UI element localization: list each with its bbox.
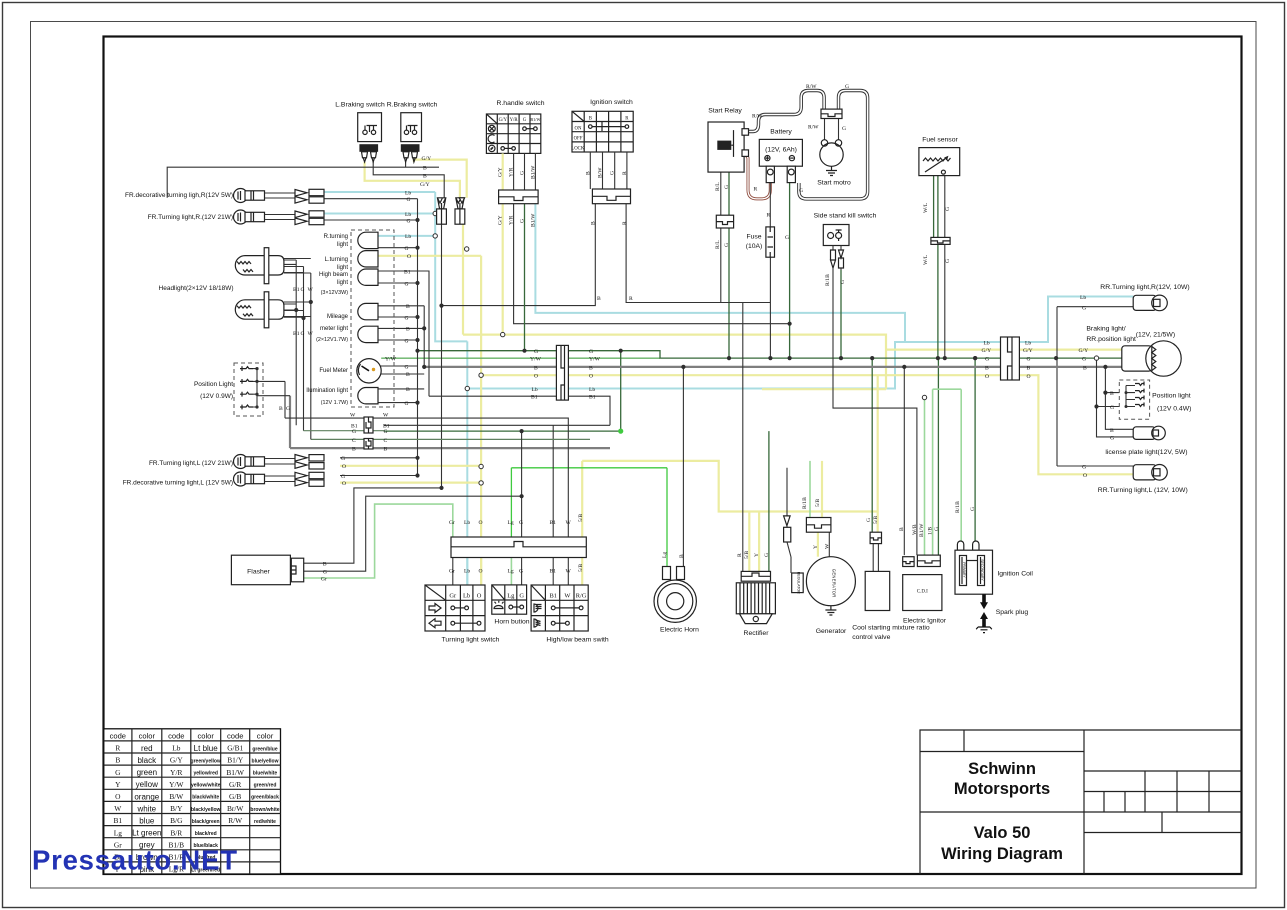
svg-text:Lb: Lb <box>464 520 470 526</box>
svg-text:G/B: G/B <box>229 792 241 801</box>
wire W/L fuel sensor green <box>933 176 935 238</box>
svg-text:R/L: R/L <box>715 240 721 249</box>
svg-text:B1/W: B1/W <box>919 523 925 537</box>
svg-text:G: G <box>724 243 730 247</box>
svg-text:Lg: Lg <box>508 569 514 575</box>
wire B position light rear riser <box>1105 367 1133 429</box>
wire G long horizontal lower <box>384 430 621 432</box>
svg-text:Gr: Gr <box>449 593 457 600</box>
lamp braking light / RR.position light <box>1122 341 1181 376</box>
svg-text:R: R <box>754 187 758 193</box>
svg-text:Fuel Meter: Fuel Meter <box>319 368 348 374</box>
wire G control valve riser <box>871 358 873 532</box>
flasher relay <box>231 555 303 585</box>
svg-text:5/B: 5/B <box>744 551 750 559</box>
wire G side stand <box>840 270 842 358</box>
svg-text:REGULATOR: REGULATOR <box>797 572 801 594</box>
svg-text:W: W <box>383 413 389 419</box>
svg-text:W: W <box>566 569 572 575</box>
svg-text:black/red: black/red <box>195 831 217 837</box>
svg-text:Gr: Gr <box>321 577 327 583</box>
wire Lb FR.turning light R <box>324 213 435 215</box>
svg-text:B/G: B/G <box>170 816 183 825</box>
svg-text:Lb: Lb <box>1080 295 1086 301</box>
svg-text:L.Braking switch: L.Braking switch <box>335 102 385 109</box>
svg-text:L.turning: L.turning <box>325 257 348 263</box>
wire G/Y riser below plug <box>462 224 464 334</box>
connector plug pair below braking switches <box>437 198 465 224</box>
svg-text:Y/W: Y/W <box>530 357 542 363</box>
rear connector J2 <box>1001 337 1020 380</box>
cool starting mixture ratio control valve <box>865 532 890 610</box>
svg-text:G: G <box>405 281 409 287</box>
svg-text:G: G <box>286 406 290 412</box>
svg-text:O: O <box>1083 473 1087 479</box>
svg-text:Y: Y <box>115 780 121 789</box>
wire R fuse lower <box>769 257 771 358</box>
svg-text:FR.Turning light,L (12V 21W): FR.Turning light,L (12V 21W) <box>149 460 233 467</box>
R.handle connector <box>499 190 538 204</box>
svg-text:green/yellow: green/yellow <box>191 758 221 764</box>
svg-text:B: B <box>384 447 388 453</box>
svg-text:B1/W: B1/W <box>531 165 537 179</box>
cluster mileage bulb 2 <box>358 326 378 342</box>
svg-text:B1/W: B1/W <box>226 768 244 777</box>
svg-text:B/W: B/W <box>169 792 183 801</box>
wire R rectifier <box>742 303 744 572</box>
svg-text:C: C <box>352 438 356 444</box>
labels instrument cluster <box>306 234 348 406</box>
electric horn H1 <box>654 567 696 623</box>
svg-text:Y/R: Y/R <box>170 768 182 777</box>
svg-text:B: B <box>1027 365 1031 371</box>
svg-text:Y/R: Y/R <box>509 167 515 177</box>
svg-text:O: O <box>1027 374 1031 380</box>
wire A/1 start relay pin <box>720 172 722 303</box>
wire Lg below bar <box>510 558 512 586</box>
svg-text:(10A): (10A) <box>746 243 763 250</box>
wire B1 bus right wrap <box>384 396 610 425</box>
svg-text:High beam: High beam <box>319 272 348 278</box>
wire B cluster riser <box>423 306 425 367</box>
svg-text:Lb: Lb <box>172 744 181 753</box>
svg-text:G: G <box>1110 405 1114 411</box>
svg-text:G/Y: G/Y <box>1023 348 1033 354</box>
svg-text:G: G <box>523 118 527 123</box>
ignition coil T1 <box>955 541 993 594</box>
svg-text:O: O <box>115 792 121 801</box>
svg-text:G: G <box>1082 357 1086 363</box>
svg-text:Y/W: Y/W <box>385 356 397 362</box>
svg-text:code: code <box>168 731 184 740</box>
svg-text:B1: B1 <box>293 331 300 337</box>
svg-text:Pressauto.NET: Pressauto.NET <box>32 845 237 876</box>
wire B ignition to left riser <box>442 204 596 306</box>
lamp FR.decorative turning light R <box>234 189 325 204</box>
wire B1/W from R.handle switch <box>535 204 905 342</box>
ignition connector <box>592 189 630 204</box>
wire B thick lower horizontal <box>290 447 610 449</box>
svg-text:High/low beam swith: High/low beam swith <box>546 637 609 644</box>
svg-text:FR.Turning light,R.(12V 21W): FR.Turning light,R.(12V 21W) <box>148 214 233 221</box>
wire R/1B generator riser <box>809 461 811 518</box>
svg-text:R: R <box>737 553 743 557</box>
svg-text:B1: B1 <box>113 816 122 825</box>
svg-text:Gr: Gr <box>449 569 455 575</box>
wire G branch to RR turning lights <box>1057 307 1133 466</box>
svg-text:G: G <box>840 280 846 284</box>
svg-text:Lb: Lb <box>405 212 411 218</box>
svg-text:(2×12V1.7W): (2×12V1.7W) <box>316 337 348 343</box>
svg-text:color: color <box>197 731 214 740</box>
wire G bus vertical collector <box>417 199 419 476</box>
svg-text:B: B <box>406 327 410 333</box>
svg-text:O: O <box>342 464 346 470</box>
wire B1 bus left of connector <box>429 395 556 397</box>
L.braking switch SW1 <box>358 113 382 162</box>
svg-text:B: B <box>423 166 427 172</box>
svg-text:B/R: B/R <box>170 828 182 837</box>
wire Lb FR.decorative turning light R <box>324 191 435 193</box>
svg-text:color: color <box>257 731 274 740</box>
svg-text:(12V, 21/5W): (12V, 21/5W) <box>1136 332 1175 339</box>
wire R/G below bar <box>581 558 583 586</box>
headlight bulb upper <box>235 248 310 284</box>
svg-text:orange: orange <box>134 792 159 801</box>
wire G/Y from L.braking switch <box>365 162 460 198</box>
svg-text:R/W: R/W <box>228 816 242 825</box>
svg-text:Lb: Lb <box>589 387 595 393</box>
svg-text:G: G <box>384 429 388 435</box>
svg-text:Ignition switch: Ignition switch <box>590 99 633 106</box>
svg-text:B: B <box>589 116 592 121</box>
svg-text:R: R <box>629 296 633 302</box>
svg-text:Electric Ignitor: Electric Ignitor <box>903 618 947 625</box>
svg-text:Braking light/: Braking light/ <box>1086 326 1125 333</box>
svg-text:yellow/red: yellow/red <box>193 771 217 777</box>
svg-text:Mileage: Mileage <box>327 314 349 320</box>
wire G drop to bar <box>521 431 523 537</box>
wire O FR.decorative turning light L <box>340 482 481 484</box>
svg-text:R/W: R/W <box>808 125 819 131</box>
side stand kill switch SW5 <box>823 225 849 271</box>
wire G/Y from R.braking switch <box>414 160 467 198</box>
svg-text:G: G <box>842 126 846 132</box>
wire G FR.decorative L <box>340 475 418 477</box>
svg-text:red: red <box>141 744 153 753</box>
svg-text:5/B: 5/B <box>578 564 584 572</box>
svg-text:G: G <box>520 219 526 223</box>
svg-text:Lb: Lb <box>532 387 538 393</box>
svg-text:G: G <box>405 364 409 370</box>
svg-text:GENERATOR: GENERATOR <box>832 569 837 598</box>
svg-text:G: G <box>405 315 409 321</box>
wire B riser below plug to flasher level <box>441 224 443 488</box>
wire B electric horn <box>682 367 684 567</box>
svg-text:W/L: W/L <box>923 254 929 265</box>
svg-text:B1/W: B1/W <box>531 213 537 227</box>
regulator small box <box>784 516 804 594</box>
svg-text:black/white: black/white <box>192 795 219 801</box>
svg-text:Fuel sensor: Fuel sensor <box>922 137 958 144</box>
inline connector small upper <box>364 417 373 433</box>
svg-text:G: G <box>970 507 976 511</box>
wire G vertical junction riser <box>620 351 622 431</box>
svg-text:G/Y: G/Y <box>170 756 183 765</box>
svg-text:G: G <box>519 593 524 600</box>
svg-text:G: G <box>785 235 789 241</box>
svg-text:G: G <box>519 569 523 575</box>
svg-text:G: G <box>1110 436 1114 442</box>
svg-text:W/L: W/L <box>923 202 929 213</box>
svg-text:B: B <box>279 406 283 412</box>
svg-text:SECONDARY: SECONDARY <box>980 559 984 581</box>
svg-text:R/1B: R/1B <box>802 497 808 509</box>
wire B thick main bus <box>424 366 1122 368</box>
wire O bus middle <box>481 375 1133 474</box>
wire B cluster stubs <box>378 306 424 389</box>
wire headlight Y riser <box>284 273 311 439</box>
start relay connector <box>716 215 733 228</box>
svg-text:G: G <box>352 429 356 435</box>
wire B from L.braking switch <box>373 162 444 198</box>
instrument cluster dashed box <box>351 230 394 407</box>
wire Lb main bus to rear <box>467 297 1133 389</box>
svg-text:Lb: Lb <box>464 569 470 575</box>
wire B1 drop to bar <box>552 425 554 537</box>
svg-text:C.D.I: C.D.I <box>917 590 928 595</box>
wire Lb below bar <box>466 558 468 586</box>
wire O FR.turning light L <box>340 465 481 467</box>
svg-text:RR.position light: RR.position light <box>1086 336 1136 343</box>
svg-text:RR.Turning light,R(12V, 10W): RR.Turning light,R(12V, 10W) <box>1100 284 1189 291</box>
wire R/1B green net to coil and CDI <box>933 389 962 557</box>
wire W below bar <box>567 558 569 586</box>
main multi-pin connector bar <box>451 537 586 558</box>
svg-text:B: B <box>899 527 905 531</box>
svg-text:blue/yellow: blue/yellow <box>252 758 279 764</box>
svg-text:Wiring Diagram: Wiring Diagram <box>941 845 1063 863</box>
svg-text:G: G <box>115 768 121 777</box>
svg-text:meter light: meter light <box>320 326 348 332</box>
inline connector small lower <box>364 439 373 450</box>
wire G/Y from R.handle switch <box>502 204 504 335</box>
wire Lb drop to turning light switch <box>466 341 468 585</box>
svg-text:R/W: R/W <box>752 114 763 120</box>
wire C long horizontal <box>311 438 590 440</box>
wire Y/R from R.handle <box>514 204 790 324</box>
svg-text:G/B1: G/B1 <box>227 744 243 753</box>
wire G FR.turning L <box>340 457 418 459</box>
svg-text:B1: B1 <box>293 287 300 293</box>
wire G bus right of connector <box>1019 357 1121 359</box>
svg-text:Lb: Lb <box>463 593 470 600</box>
svg-text:B: B <box>406 372 410 378</box>
svg-text:B/Y: B/Y <box>170 804 183 813</box>
wire Gr below bar <box>452 558 454 586</box>
svg-text:G: G <box>301 287 305 293</box>
middle connector J1 <box>556 345 568 400</box>
svg-text:G: G <box>534 349 538 355</box>
svg-text:Y/R: Y/R <box>510 118 519 123</box>
wire G start relay pin <box>728 172 730 358</box>
wire G position light lower stub <box>263 395 290 397</box>
svg-text:(12V 1.7W): (12V 1.7W) <box>321 400 348 406</box>
svg-text:G/Y: G/Y <box>982 348 992 354</box>
wire 5/B generator riser <box>821 461 823 518</box>
svg-text:OFF: OFF <box>574 137 583 142</box>
wire O drop to switch bar <box>480 256 482 585</box>
svg-text:W: W <box>350 413 356 419</box>
ignition switch wires to connector <box>590 152 627 189</box>
wire G CDI <box>937 358 939 555</box>
svg-text:G: G <box>301 331 305 337</box>
wire B flasher <box>304 488 442 563</box>
svg-text:Ilumination light: Ilumination light <box>306 388 348 394</box>
svg-text:R/1B: R/1B <box>825 274 831 286</box>
horn button grid SW7 <box>492 585 527 614</box>
svg-text:FR.decorative turning light,L: FR.decorative turning light,L (12V 5W) <box>123 480 233 487</box>
svg-text:O: O <box>534 374 538 380</box>
cluster mileage bulb 1 <box>358 303 378 319</box>
svg-text:green/red: green/red <box>254 783 277 789</box>
battery BT1 <box>759 139 802 182</box>
wire G main bus <box>418 351 1020 358</box>
svg-text:B: B <box>323 562 327 568</box>
wire 5/B control valve <box>877 375 879 532</box>
svg-text:Lg: Lg <box>114 828 123 837</box>
cluster R.turning light bulb <box>358 232 378 248</box>
junction rings <box>433 211 1099 485</box>
wire R battery to fuse <box>769 183 771 227</box>
svg-text:yellow: yellow <box>136 780 158 789</box>
wire Lg light green run flasher to bar <box>304 504 453 578</box>
svg-text:B1: B1 <box>549 593 556 600</box>
svg-text:R: R <box>767 213 771 219</box>
wire R red battery to relay <box>746 155 770 199</box>
svg-text:B: B <box>1110 428 1114 434</box>
svg-text:G: G <box>985 357 989 363</box>
svg-text:G/R: G/R <box>229 780 241 789</box>
svg-text:black/green: black/green <box>192 819 220 825</box>
cluster illumination bulb <box>358 388 378 404</box>
wire headlight G riser <box>284 267 304 431</box>
svg-text:(12V, 6Ah): (12V, 6Ah) <box>765 147 797 154</box>
junction green dot <box>618 429 623 434</box>
svg-text:blue: blue <box>139 817 155 826</box>
svg-text:G/Y: G/Y <box>420 182 430 188</box>
headlight bulb lower <box>235 292 311 328</box>
wire G/Y main run to rear <box>463 335 1122 390</box>
svg-text:B: B <box>423 174 427 180</box>
wire G below bar <box>521 558 523 586</box>
lamp license plate light <box>1133 426 1165 440</box>
wire G start motor loop <box>799 91 868 199</box>
svg-text:G: G <box>1082 465 1086 471</box>
svg-text:black: black <box>137 756 157 765</box>
svg-text:blue/white: blue/white <box>253 771 278 777</box>
fuel sensor FS1 <box>919 148 960 176</box>
svg-text:license plate light(12V, 5W): license plate light(12V, 5W) <box>1105 449 1187 456</box>
svg-text:G: G <box>610 171 616 175</box>
electric ignitor CDI <box>903 555 942 610</box>
svg-text:R: R <box>115 744 120 753</box>
svg-text:yellow/white: yellow/white <box>191 783 221 789</box>
svg-text:Rectifier: Rectifier <box>744 630 770 637</box>
svg-text:R/G: R/G <box>576 593 587 600</box>
svg-text:W: W <box>308 331 314 337</box>
svg-text:B: B <box>1110 391 1114 397</box>
svg-text:green: green <box>137 768 157 777</box>
R.handle switch wires to connector <box>514 153 536 190</box>
svg-text:Cool starting mixture ratio: Cool starting mixture ratio <box>852 625 930 632</box>
svg-text:light: light <box>337 280 348 286</box>
ignition switch grid SW4 <box>572 111 633 152</box>
cluster L.turning light bulb <box>358 251 378 267</box>
wire G position light rear riser <box>1097 358 1134 437</box>
wire W position light riser <box>263 381 285 418</box>
svg-text:Schwinn: Schwinn <box>968 760 1036 778</box>
svg-text:white: white <box>136 804 156 813</box>
svg-text:Lg: Lg <box>508 520 514 526</box>
svg-text:B: B <box>585 171 591 175</box>
svg-text:G: G <box>724 185 730 189</box>
wire W long horizontal <box>285 418 568 537</box>
svg-text:G: G <box>407 197 411 203</box>
svg-text:R.Braking switch: R.Braking switch <box>387 102 438 109</box>
svg-text:B1: B1 <box>550 569 557 575</box>
wire B1 below bar <box>552 558 554 586</box>
wire G battery drop <box>789 183 791 358</box>
svg-text:B: B <box>679 554 685 558</box>
svg-text:black/yellow: black/yellow <box>191 807 221 813</box>
svg-text:O: O <box>479 520 483 526</box>
wire faint green CDI lead <box>924 398 926 556</box>
wire G cluster stubs <box>378 248 418 403</box>
svg-text:R/W: R/W <box>806 84 817 90</box>
svg-text:color: color <box>139 731 156 740</box>
svg-text:G: G <box>407 219 411 225</box>
svg-text:G: G <box>866 518 872 522</box>
svg-text:B: B <box>115 756 120 765</box>
wire G FR lamps left verticals <box>324 199 418 220</box>
svg-text:G/Y: G/Y <box>422 156 432 162</box>
svg-text:Lb: Lb <box>405 234 411 240</box>
wire R/W motor pin <box>824 119 826 140</box>
fuse F1 <box>766 227 775 257</box>
svg-text:control valve: control valve <box>852 634 890 641</box>
svg-text:B/W: B/W <box>598 167 604 178</box>
svg-text:Lt blue: Lt blue <box>194 744 219 753</box>
svg-text:red/white: red/white <box>254 819 276 825</box>
svg-text:LOCK: LOCK <box>571 147 585 152</box>
lamp FR.decorative turning light L <box>234 472 325 486</box>
svg-text:G: G <box>405 401 409 407</box>
svg-text:Y/W: Y/W <box>169 780 183 789</box>
svg-text:Start motro: Start motro <box>817 180 851 187</box>
rectifier D1 <box>736 571 775 623</box>
svg-text:Y: Y <box>813 545 819 549</box>
svg-text:R.turning: R.turning <box>324 234 348 240</box>
lamp FR.turning light L <box>234 455 325 470</box>
title block <box>920 730 1242 874</box>
svg-text:Lt green: Lt green <box>132 829 161 838</box>
lamp RR.turning light L <box>1133 465 1167 481</box>
wire G motor pin <box>838 119 840 140</box>
svg-text:Br/W: Br/W <box>227 804 243 813</box>
svg-text:O: O <box>342 481 346 487</box>
svg-text:Generator: Generator <box>816 628 847 635</box>
